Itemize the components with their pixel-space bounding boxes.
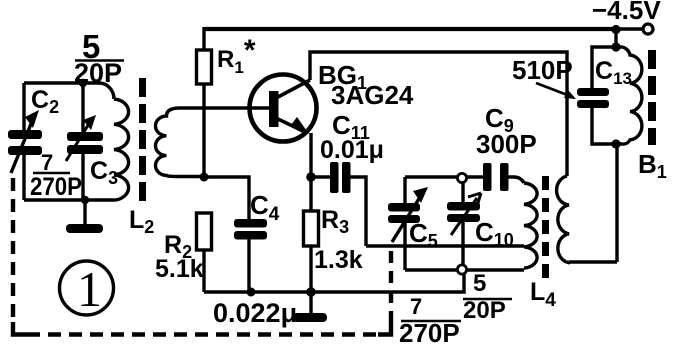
node tank top junction [79, 79, 87, 87]
wire 510P pointer [536, 83, 576, 99]
capacitor 0.022u to ground [293, 292, 327, 322]
wire emitter down [309, 133, 312, 211]
label B1 [638, 149, 667, 182]
capacitor C10 [447, 179, 481, 269]
label C4 [250, 190, 280, 225]
resistor R2 [197, 213, 212, 292]
label -4.5V [592, 0, 661, 25]
svg-text:300P: 300P [476, 129, 537, 159]
svg-text:270P: 270P [30, 173, 82, 201]
label L2 [129, 206, 154, 237]
svg-text:20P: 20P [74, 58, 122, 88]
inductor L2 primary winding [114, 99, 129, 200]
svg-text:L4: L4 [530, 278, 556, 311]
inductor L4 primary winding with tap [524, 183, 537, 268]
svg-text:−4.5V: −4.5V [592, 0, 661, 25]
wire collector up and over [310, 52, 567, 176]
wire R1 top lead [202, 27, 205, 50]
svg-text:C13: C13 [595, 57, 632, 88]
label BG1 [318, 60, 367, 93]
svg-text:R3: R3 [321, 206, 349, 237]
svg-text:R1*: R1* [217, 34, 256, 77]
label C3 [90, 157, 118, 188]
label 0.01u [320, 136, 384, 164]
resistor R3 [304, 211, 319, 292]
svg-text:0.01μ: 0.01μ [320, 136, 384, 164]
svg-text:1: 1 [77, 261, 102, 317]
inductor B1 primary winding [616, 47, 642, 144]
node supply junction [611, 25, 620, 34]
node tank bottom ring [457, 265, 466, 274]
label C9 [485, 103, 514, 136]
label 5.1k [155, 255, 204, 283]
core L2 [139, 78, 146, 201]
wire osc tank left branch top [403, 177, 406, 203]
wire osc tank top [405, 177, 524, 183]
svg-text:5.1k: 5.1k [155, 255, 204, 283]
label 7/270P fraction [30, 150, 82, 201]
wire top supply rail [204, 27, 616, 31]
label C10 [475, 217, 514, 250]
label 300P [476, 129, 537, 159]
label C5 [409, 218, 438, 251]
node B1 top junction [611, 42, 620, 51]
capacitor C11 [311, 162, 366, 246]
svg-text:7: 7 [41, 150, 53, 175]
wire supply to terminal [616, 27, 643, 30]
label 5/20P fraction [74, 28, 124, 88]
svg-text:270P: 270P [399, 318, 460, 348]
svg-text:C5: C5 [409, 218, 438, 251]
capacitor C3 [66, 83, 103, 200]
label 5/20P right fraction [463, 270, 512, 324]
capacitor C13 [577, 47, 616, 144]
node emitter junction [306, 172, 316, 182]
wire secondary bottom to C4 [204, 177, 249, 219]
svg-text:20P: 20P [463, 297, 506, 324]
label R3 [321, 206, 349, 237]
capacitor C2 [8, 83, 42, 200]
wire base line [178, 106, 270, 109]
capacitor C4 [234, 219, 267, 292]
inductor L2 secondary winding [156, 108, 205, 177]
label R2 [164, 231, 192, 262]
wire tank bottom [24, 198, 114, 201]
svg-text:C4: C4 [250, 190, 280, 225]
label 1.3k [314, 246, 363, 274]
label 3AG24 [331, 80, 414, 110]
terminal -4.5V [643, 24, 653, 34]
svg-text:7: 7 [410, 294, 422, 319]
svg-text:5: 5 [473, 270, 486, 297]
wire osc tank bottom [405, 268, 524, 271]
svg-text:B1: B1 [638, 149, 667, 182]
node emitter ground junction [306, 287, 316, 297]
label 7/270P right fraction [399, 294, 461, 348]
svg-text:C2: C2 [31, 86, 59, 117]
svg-text:0.022μ: 0.022μ [213, 298, 297, 328]
svg-text:510P: 510P [512, 55, 573, 85]
svg-text:3AG24: 3AG24 [331, 80, 414, 110]
label figure number 1 [60, 261, 114, 317]
svg-text:1.3k: 1.3k [314, 246, 363, 274]
label C2 [31, 86, 59, 117]
inductor L4 secondary winding [557, 176, 617, 263]
label C11 [332, 110, 370, 143]
node bias junction [200, 173, 209, 182]
wire R1 bottom to bias node [202, 84, 205, 177]
core B1 [648, 50, 656, 145]
svg-text:C3: C3 [90, 157, 118, 188]
wire C11 feed to L4 tap [366, 244, 524, 247]
wire ground rail [204, 270, 464, 292]
svg-text:C10: C10 [475, 217, 514, 250]
label 0.022u [213, 298, 297, 328]
capacitor C9 [483, 163, 509, 191]
inductor L2 tank top wire [24, 83, 114, 99]
capacitor C5 [388, 187, 428, 270]
resistor R1 [197, 50, 212, 84]
node tank top ring [457, 173, 466, 182]
wire gang dashed link [13, 178, 391, 335]
transistor BG1 [250, 75, 317, 142]
wire L4 secondary to B1 [615, 144, 618, 262]
label C13 [595, 57, 632, 88]
label R1* [217, 34, 256, 77]
label 510P [512, 55, 573, 85]
core L4 [542, 176, 549, 278]
label L4 [530, 278, 556, 311]
ground left [66, 200, 103, 233]
node C4 ground junction [247, 288, 256, 297]
node B1 bottom junction [611, 139, 620, 148]
wire supply drop to B1 [614, 29, 617, 47]
svg-text:L2: L2 [129, 206, 154, 237]
node tank bottom junction [81, 196, 89, 204]
